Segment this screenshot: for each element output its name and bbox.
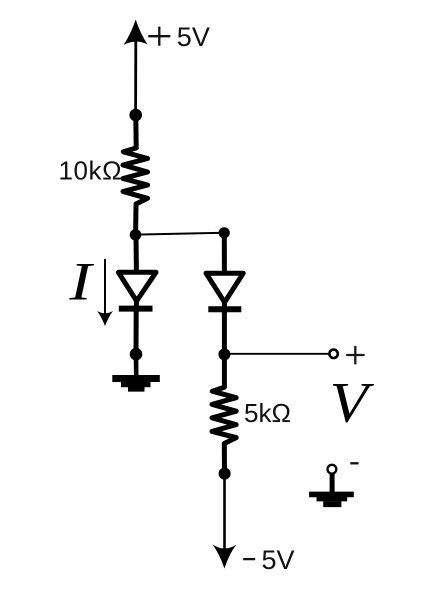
resistor R2 5k zigzag xyxy=(212,387,236,443)
plus sign xyxy=(346,346,364,364)
ground (right, at - terminal) xyxy=(309,473,354,504)
wire D2 to node E xyxy=(222,309,227,354)
wire node E to R2 xyxy=(222,354,227,388)
svg-text:I: I xyxy=(68,252,95,312)
node C xyxy=(219,227,230,238)
resistor R1 10k zigzag xyxy=(123,148,148,204)
wire R1 to node B xyxy=(133,204,138,235)
node B xyxy=(130,229,142,241)
wire D1 to node D xyxy=(134,308,139,354)
wire node D to ground xyxy=(134,354,139,376)
node D xyxy=(130,348,143,361)
ground (left) xyxy=(112,379,160,390)
label + 5V xyxy=(148,27,170,46)
node F xyxy=(219,468,231,480)
svg-text:5V: 5V xyxy=(262,545,295,575)
svg-text:5V: 5V xyxy=(177,22,210,52)
wire node C to D2 xyxy=(222,233,227,273)
wire node B to node C (horizontal) xyxy=(136,233,225,235)
wire R2 to node F xyxy=(222,444,227,474)
label - 5V xyxy=(243,558,255,560)
diode D2 (right) xyxy=(206,273,243,313)
current arrow xyxy=(97,259,113,326)
minus sign xyxy=(350,462,358,464)
node E xyxy=(218,348,230,360)
- terminal (open circle) xyxy=(328,465,337,474)
wire node A to R1 xyxy=(133,115,138,149)
-5V supply arrow xyxy=(212,474,236,569)
svg-text:5kΩ: 5kΩ xyxy=(244,398,291,428)
wire node B to D1 xyxy=(134,235,139,272)
wire node E to + terminal xyxy=(224,353,328,355)
node A (top) xyxy=(129,109,142,122)
svg-text:10kΩ: 10kΩ xyxy=(59,156,122,186)
+ terminal (open circle) xyxy=(329,350,337,358)
+5V supply arrow xyxy=(124,20,148,116)
diode D1 (left) xyxy=(118,272,156,312)
